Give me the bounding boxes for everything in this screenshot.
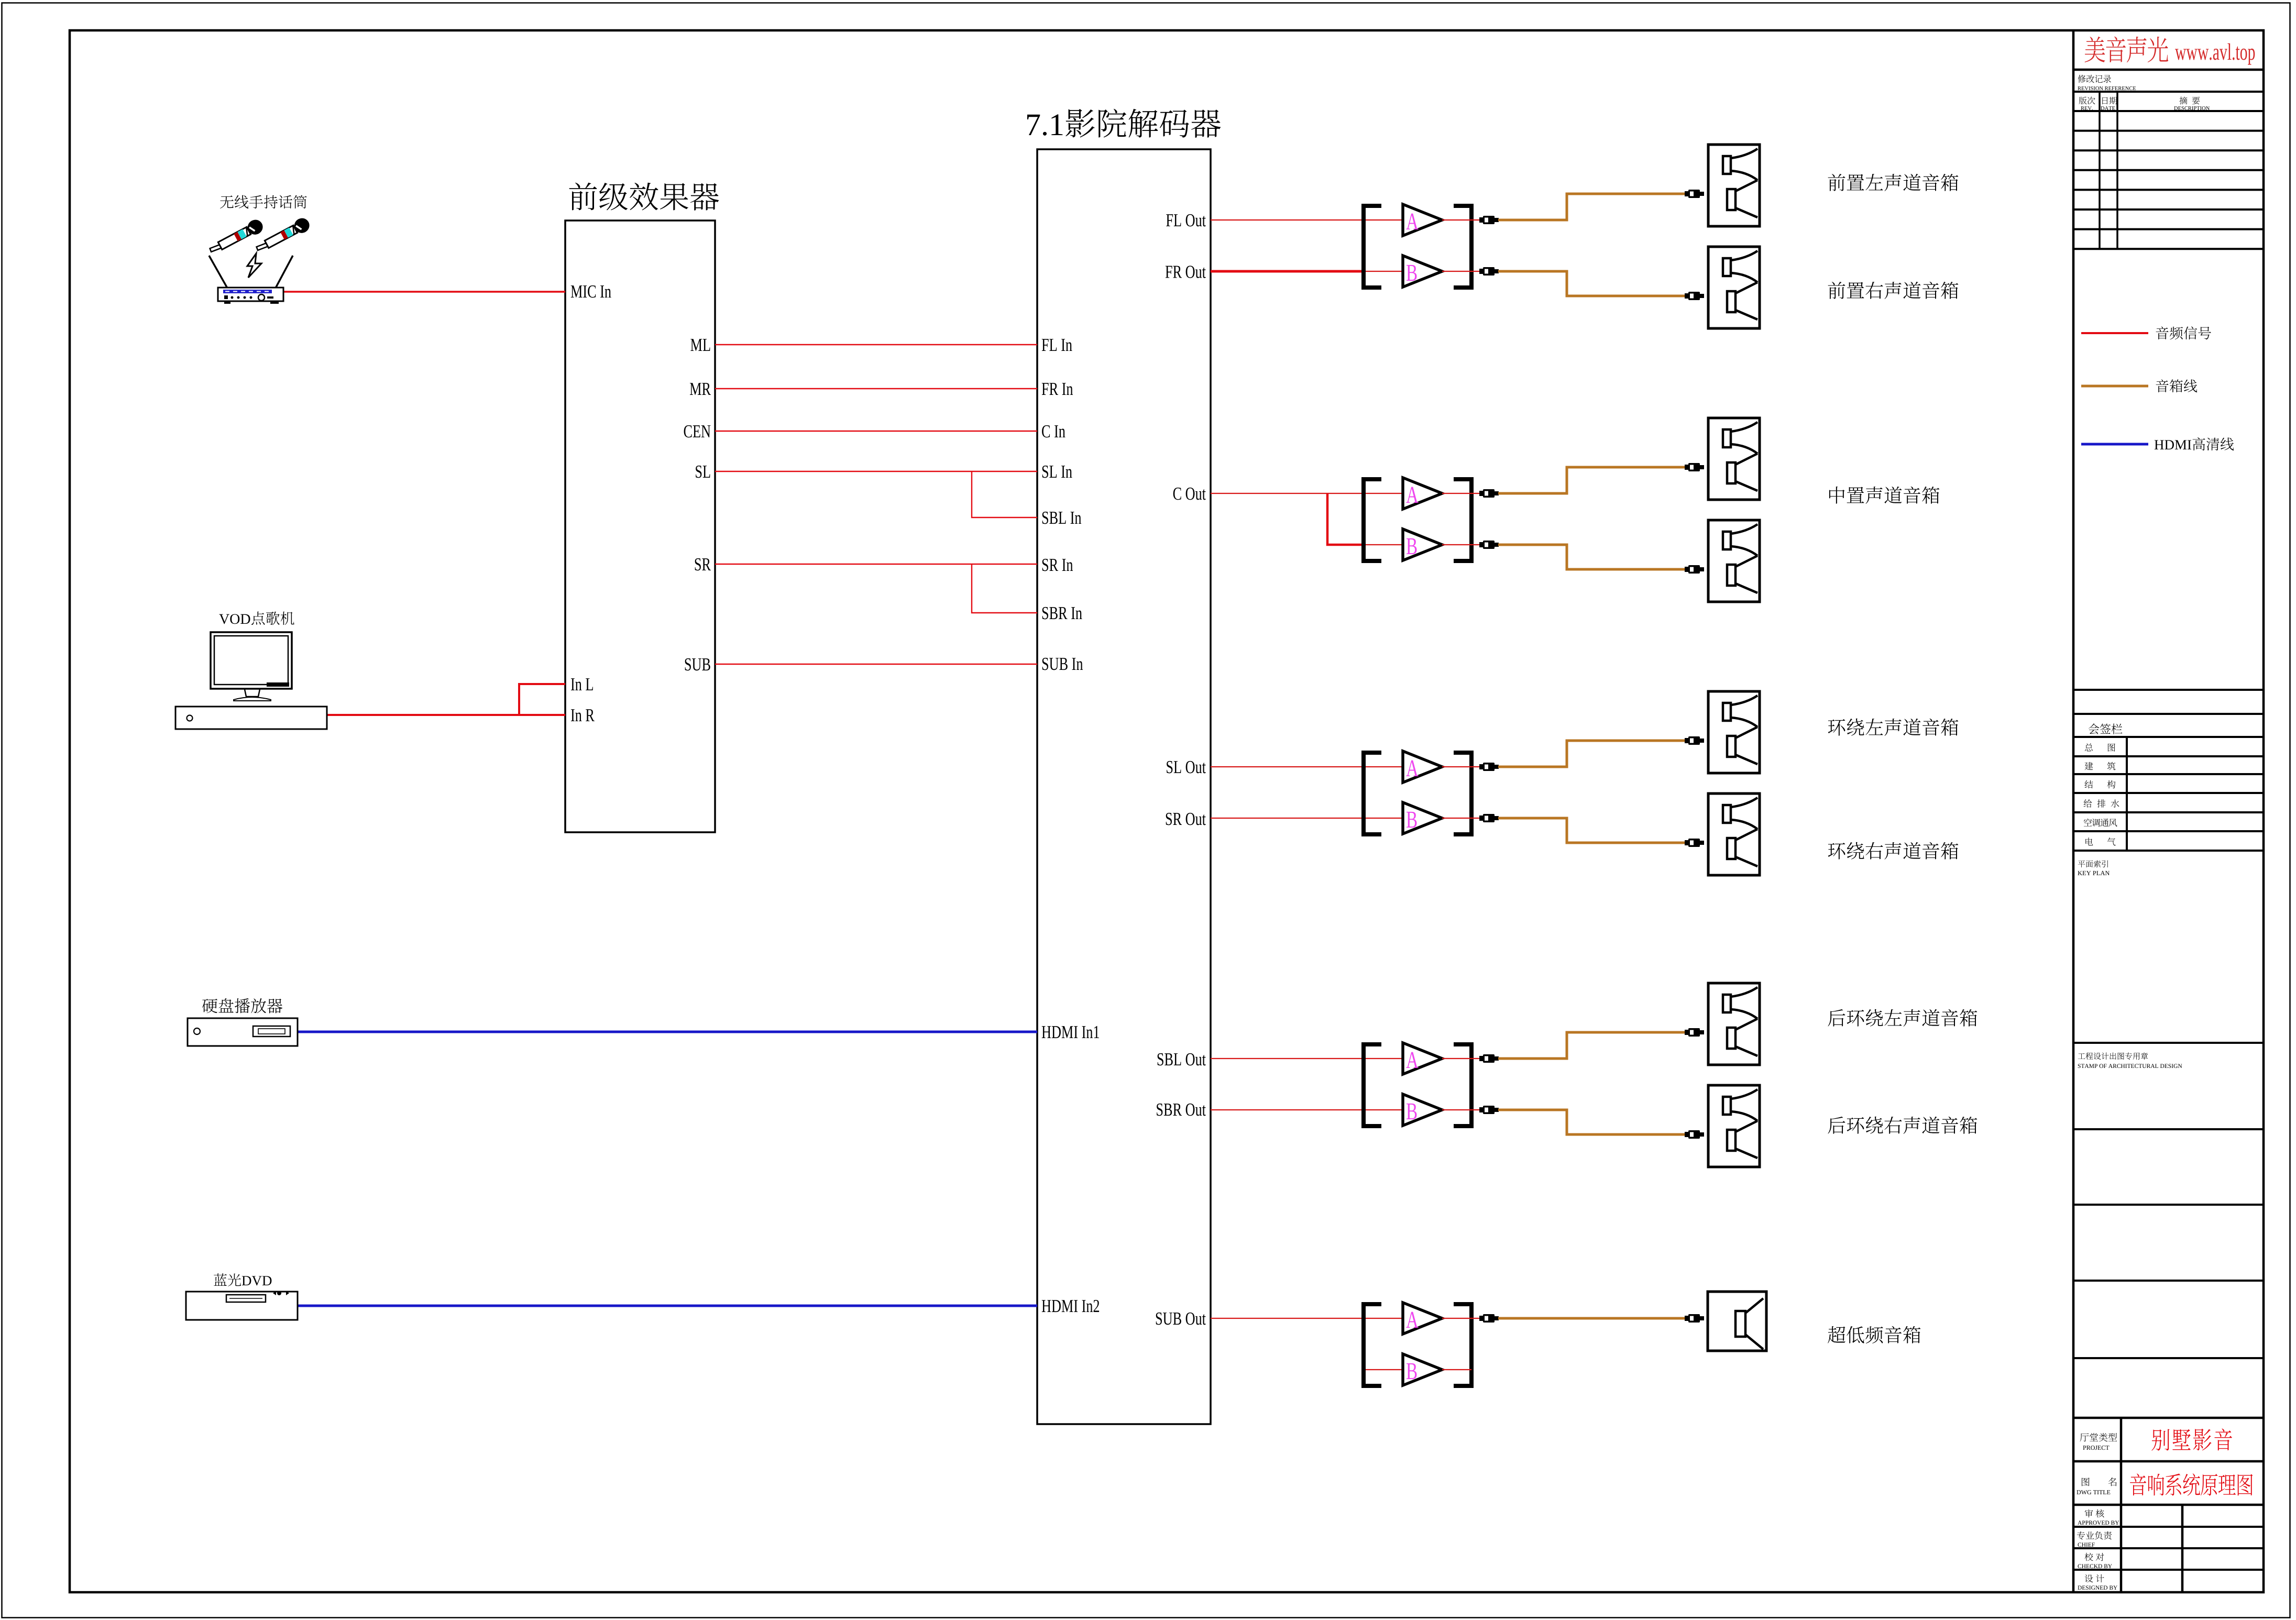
VOD monitor stand xyxy=(245,689,260,697)
effects port SUB xyxy=(685,658,710,671)
speaker 3B xyxy=(1708,794,1760,875)
speaker wire 4A xyxy=(1498,1032,1685,1059)
speaker connector 4A xyxy=(1685,1028,1704,1037)
wire VOD to In L / In R xyxy=(327,684,565,715)
speaker wire 2A xyxy=(1498,467,1685,493)
amplifier 4A triangle xyxy=(1403,1043,1442,1074)
effects port In R xyxy=(571,709,595,721)
decoder port C In xyxy=(1042,425,1065,438)
amplifier group 1 right bracket xyxy=(1454,206,1471,288)
hard-disk player xyxy=(188,1018,298,1046)
wire MIC receiver to MIC In xyxy=(283,291,565,293)
amplifier group 3 left bracket xyxy=(1364,753,1381,834)
decoder port SBL In xyxy=(1042,512,1081,524)
speaker connector 3B xyxy=(1685,839,1704,847)
speaker connector 2A xyxy=(1685,463,1704,471)
amplifier 5A output stub xyxy=(1442,1318,1479,1319)
amplifier 2B label xyxy=(1407,538,1417,554)
receiver antenna right xyxy=(276,256,293,288)
dwg title row 图名 音响系统原理图 xyxy=(2082,1478,2090,1486)
empty boxes xyxy=(2073,1204,2264,1206)
decoder port SBR In xyxy=(1042,607,1082,620)
blu-ray DVD player xyxy=(186,1292,298,1320)
amplifier group 2 branch to B xyxy=(1327,493,1363,545)
speaker 1A xyxy=(1708,145,1760,226)
amplifier 1A output connector xyxy=(1479,216,1499,224)
logo box: 美音声光 www.avl.top xyxy=(2073,69,2264,71)
effects port ML xyxy=(690,339,710,351)
HDMI cable 1 xyxy=(298,1031,1037,1033)
label 蓝光DVD xyxy=(214,1273,271,1286)
VOD monitor xyxy=(211,632,292,689)
effects port MIC In xyxy=(571,285,611,298)
amplifier group 1 input line A xyxy=(1211,219,1402,221)
speaker wire 3A xyxy=(1498,741,1685,767)
amplifier 5A triangle xyxy=(1403,1303,1442,1334)
decoder port SL In xyxy=(1042,466,1072,478)
speaker wire subwoofer xyxy=(1498,1317,1685,1320)
amplifier 5A label xyxy=(1406,1312,1418,1328)
decoder port FR Out xyxy=(1166,266,1206,278)
amplifier 3A triangle xyxy=(1403,751,1442,783)
amplifier 2A label xyxy=(1406,487,1418,503)
amplifier group 4 right bracket xyxy=(1454,1044,1471,1126)
label 环绕右声道音箱 xyxy=(1828,842,1959,859)
speaker 2A xyxy=(1708,418,1760,500)
speaker 4B xyxy=(1708,1085,1760,1167)
decoder port SR In xyxy=(1042,559,1073,571)
amplifier 3A output stub xyxy=(1442,766,1479,767)
amplifier 3B output stub xyxy=(1442,818,1479,819)
amplifier 1A label xyxy=(1406,214,1418,229)
effects port MR xyxy=(690,383,711,395)
key plan box xyxy=(2078,860,2108,867)
effects port In L xyxy=(571,678,593,690)
wire SUB to SUB In xyxy=(715,664,1037,665)
label 中置声道音箱 xyxy=(1829,487,1939,504)
amplifier group 5 left bracket xyxy=(1364,1304,1381,1386)
amplifier group 2 input line A xyxy=(1211,493,1402,494)
speaker wire 3B xyxy=(1498,818,1685,843)
speaker 4A xyxy=(1708,983,1760,1065)
amplifier 5B label xyxy=(1407,1363,1417,1379)
amplifier 4A output connector xyxy=(1479,1054,1499,1063)
amplifier 3B triangle xyxy=(1403,802,1442,834)
wire SR to SR In xyxy=(715,564,1037,565)
signature section 会签栏 xyxy=(2073,689,2264,691)
amplifier 1B triangle xyxy=(1403,256,1442,287)
amplifier group 5 right bracket xyxy=(1454,1304,1471,1386)
revision reference header xyxy=(2078,75,2111,83)
approval rows xyxy=(2085,1509,2104,1518)
decoder port SUB Out xyxy=(1156,1313,1206,1325)
amplifier 3B output connector xyxy=(1479,814,1499,822)
speaker connector 1B xyxy=(1685,292,1704,300)
legend: speaker wire xyxy=(2081,385,2148,388)
amplifier 3A output connector xyxy=(1479,763,1499,771)
amplifier 1B output connector xyxy=(1479,267,1499,275)
effects port CEN xyxy=(684,425,711,438)
decoder port FR In xyxy=(1042,383,1073,395)
amplifier group 1 left bracket xyxy=(1364,206,1381,288)
title block left edge xyxy=(2072,30,2075,1592)
wire ML to FL In xyxy=(715,344,1037,345)
amplifier group 5 input line B stub xyxy=(1363,1369,1402,1370)
wireless microphone 2 xyxy=(254,216,312,256)
amplifier 1A output stub xyxy=(1442,219,1479,221)
amplifier 2A output stub xyxy=(1442,493,1479,494)
amplifier 4B triangle xyxy=(1403,1094,1442,1126)
revision table header row: REV DATE DESCRIPTION xyxy=(2079,97,2095,105)
amplifier group 1 input line B (thick) xyxy=(1211,270,1363,273)
branch wire SL to SBL In xyxy=(972,471,1037,517)
wire SL to SL In xyxy=(715,471,1037,472)
amplifier 4A output stub xyxy=(1442,1058,1479,1059)
speaker wire 1B xyxy=(1498,271,1685,296)
decoder port SL Out xyxy=(1167,761,1206,774)
amplifier 2A triangle xyxy=(1403,478,1442,509)
label 前置左声道音箱 xyxy=(1828,174,1959,191)
decoder port SBL Out xyxy=(1158,1053,1206,1066)
wireless microphone 1 xyxy=(207,217,266,258)
amplifier 3A label xyxy=(1406,761,1418,776)
amplifier 4B output stub xyxy=(1442,1109,1479,1110)
speaker wire 1A xyxy=(1498,194,1685,220)
speaker connector 3A xyxy=(1685,736,1704,745)
amplifier group 3 input line A xyxy=(1211,766,1402,767)
speaker wire 4B xyxy=(1498,1110,1685,1134)
decoder port C Out xyxy=(1173,488,1206,500)
legend: HDMI cable xyxy=(2081,443,2148,446)
speaker wire 2B xyxy=(1498,545,1685,569)
branch wire SR to SBR In xyxy=(972,564,1037,613)
amplifier 2A output connector xyxy=(1479,489,1499,498)
VOD player deck xyxy=(175,707,327,729)
amplifier 1B output stub xyxy=(1442,271,1479,272)
decoder port FL In xyxy=(1042,339,1072,351)
amplifier 2B triangle xyxy=(1403,529,1442,560)
decoder port HDMI In1 xyxy=(1042,1026,1099,1038)
speaker 2B xyxy=(1708,520,1760,602)
amplifier group 2 left bracket xyxy=(1364,479,1381,561)
decoder port SUB In xyxy=(1042,658,1083,670)
amplifier 1A triangle xyxy=(1403,204,1442,236)
amplifier group 2 right bracket xyxy=(1454,479,1471,561)
label 后环绕右声道音箱 xyxy=(1828,1117,1977,1134)
amplifier 4B label xyxy=(1407,1104,1417,1119)
label 超低频音箱 xyxy=(1828,1326,1920,1343)
amplifier 5A output connector xyxy=(1479,1314,1499,1323)
amplifier 5B tip stub xyxy=(1442,1369,1471,1370)
amplifier 4A label xyxy=(1406,1052,1418,1068)
effects port SR xyxy=(695,558,711,571)
project row 厅堂类型 别墅影音 xyxy=(2080,1433,2117,1441)
amplifier group 5 input line A xyxy=(1211,1318,1402,1319)
label 无线手持话筒 xyxy=(220,195,307,209)
speaker connector 2B xyxy=(1685,565,1704,574)
amplifier group 4 left bracket xyxy=(1364,1044,1381,1126)
lightning bolt xyxy=(247,254,261,278)
HDMI cable 2 xyxy=(298,1305,1037,1307)
amplifier group 4 input line A xyxy=(1211,1058,1402,1059)
label 硬盘播放器 xyxy=(202,998,282,1013)
stamp box xyxy=(2078,1052,2148,1060)
label VOD点歌机 xyxy=(219,612,294,625)
revision table empty rows xyxy=(2073,130,2264,132)
wire CEN to C In xyxy=(715,431,1037,432)
decoder port HDMI In2 xyxy=(1042,1300,1099,1312)
speaker connector 1A xyxy=(1685,190,1704,198)
amplifier 4B output connector xyxy=(1479,1106,1499,1114)
effects port SL xyxy=(696,466,710,478)
subwoofer speaker xyxy=(1708,1292,1766,1351)
decoder port FL Out xyxy=(1166,214,1206,227)
wire MR to FR In xyxy=(715,388,1037,389)
amplifier 5B triangle xyxy=(1403,1354,1442,1385)
speaker 3A xyxy=(1708,691,1760,773)
amplifier 2B output stub xyxy=(1442,544,1479,545)
subwoofer connector xyxy=(1685,1314,1704,1323)
label 后环绕左声道音箱 xyxy=(1828,1009,1977,1027)
amplifier group 3 right bracket xyxy=(1454,753,1471,834)
label 环绕左声道音箱 xyxy=(1828,719,1959,736)
pre-effects processor box 前级效果器 xyxy=(565,221,715,832)
legend: audio signal line xyxy=(2081,332,2148,334)
amplifier group 4 input line B xyxy=(1211,1109,1402,1110)
amplifier group 3 input line B xyxy=(1211,818,1402,819)
amplifier 3B label xyxy=(1407,812,1417,828)
decoder box 7.1影院解码器 xyxy=(1037,149,1211,1424)
amplifier 1B label xyxy=(1407,265,1417,281)
label 前置右声道音箱 xyxy=(1828,282,1959,299)
speaker 1B xyxy=(1708,247,1760,328)
decoder port SBR Out xyxy=(1157,1104,1206,1116)
speaker connector 4B xyxy=(1685,1130,1704,1139)
receiver antenna left xyxy=(209,256,227,288)
mic receiver unit xyxy=(218,288,283,301)
decoder port SR Out xyxy=(1166,813,1206,825)
amplifier 2B output connector xyxy=(1479,541,1499,549)
